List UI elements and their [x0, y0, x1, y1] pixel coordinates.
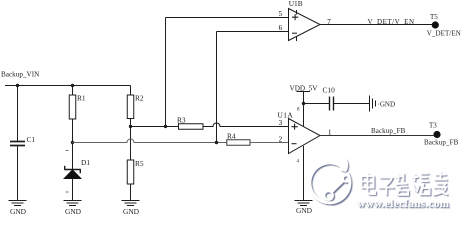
ground GND under R5: [122, 201, 140, 217]
ground sideways at C10: [370, 96, 396, 112]
power VDD_5V: [290, 85, 319, 104]
svg-text:www.elecfans.com: www.elecfans.com: [358, 198, 450, 210]
svg-text:4: 4: [297, 160, 300, 165]
wire R2 top drop: [130, 86, 132, 96]
junction at C1 top: [16, 84, 19, 87]
resistor R2: [127, 94, 144, 119]
wire R2 bottom to upper line: [130, 119, 132, 127]
testpoint T5: [430, 13, 439, 29]
wire VDD to U1A V+ stub: [303, 104, 305, 127]
svg-text:C10: C10: [323, 86, 336, 95]
svg-text:R4: R4: [227, 132, 236, 141]
wire U1B output: [320, 24, 433, 26]
svg-text:V_DET/V_EN: V_DET/V_EN: [368, 18, 415, 26]
svg-text:3: 3: [279, 119, 283, 127]
svg-text:·GND: ·GND: [378, 100, 396, 108]
resistor R3: [177, 116, 203, 130]
pin 1 tick of D1: [66, 150, 69, 152]
watermark logo circle: [310, 160, 351, 205]
svg-text:T3: T3: [429, 121, 437, 129]
svg-text:R3: R3: [177, 116, 186, 125]
wire C10 to ground: [334, 103, 370, 105]
diode D1 zener: [64, 158, 90, 179]
op-amp U1B: [289, 0, 321, 41]
wire Backup_VIN rail: [5, 85, 131, 87]
op-amp U1A: [278, 111, 321, 154]
wire R1 bottom to node: [72, 119, 74, 143]
wire R2 to R5: [130, 127, 132, 161]
svg-text:U1B: U1B: [289, 0, 303, 8]
ground GND under U1A: [295, 201, 313, 216]
svg-text:V_DET/EN: V_DET/EN: [427, 30, 461, 38]
junction pin5 riser at upper line: [164, 125, 167, 128]
wire D1 to ground: [72, 179, 74, 201]
ground GND under D1: [64, 201, 82, 217]
svg-text:R2: R2: [135, 94, 144, 103]
wire U1A output: [320, 135, 434, 137]
svg-text:5: 5: [279, 10, 283, 18]
junction pin6 riser at lower line: [215, 141, 218, 144]
ground GND under C1: [9, 201, 27, 217]
svg-text:C1: C1: [27, 135, 36, 144]
wire R1 top drop: [72, 86, 74, 96]
wire pin 5 horizontal: [166, 17, 289, 19]
capacitor C1: [10, 135, 35, 146]
wire pin5 riser: [165, 18, 167, 127]
resistor R5: [127, 159, 144, 184]
svg-text:GND: GND: [296, 206, 313, 215]
wire upper line left segment: [131, 126, 179, 128]
svg-text:R1: R1: [77, 94, 86, 103]
svg-text:D1: D1: [81, 158, 90, 167]
wire C1 top drop: [17, 86, 19, 142]
svg-text:8: 8: [297, 108, 300, 113]
svg-text:Backup_VIN: Backup_VIN: [1, 71, 40, 79]
svg-text:R5: R5: [135, 159, 144, 168]
watermark url text: [358, 198, 451, 211]
svg-text:T5: T5: [430, 13, 438, 21]
wire C1 to ground: [17, 146, 19, 201]
svg-text:Backup_FB: Backup_FB: [371, 127, 406, 135]
junction divider node: [71, 141, 74, 144]
wire R4 to pin 2: [250, 142, 289, 144]
resistor R1: [69, 94, 86, 120]
svg-text:GND: GND: [65, 207, 82, 216]
svg-text:GND: GND: [123, 207, 140, 216]
svg-text:6: 6: [279, 24, 283, 32]
junction R2 at upper line: [129, 125, 132, 128]
wire pin 6 horizontal: [217, 31, 289, 33]
watermark chinese text: [362, 172, 449, 197]
resistor R4: [227, 132, 250, 146]
wire U1A V- stub: [303, 146, 305, 201]
svg-text:2: 2: [279, 136, 283, 144]
svg-text:GND: GND: [10, 207, 27, 216]
wire pin6 riser: [216, 32, 218, 143]
junction VDD node: [302, 102, 305, 105]
junction at R1 top: [71, 84, 74, 87]
wire VDD to C10: [304, 103, 330, 105]
wire upper line right segment to pin 3 with hop: [203, 123, 289, 126]
capacitor C10: [323, 86, 336, 111]
wire lower line from divider node with hop: [73, 139, 227, 143]
testpoint T3: [429, 121, 441, 138]
wire node to D1: [72, 143, 74, 170]
pin 2 tick of D1: [66, 191, 69, 193]
svg-text:Backup_FB: Backup_FB: [424, 139, 459, 147]
wire R5 bottom to ground: [130, 184, 132, 201]
